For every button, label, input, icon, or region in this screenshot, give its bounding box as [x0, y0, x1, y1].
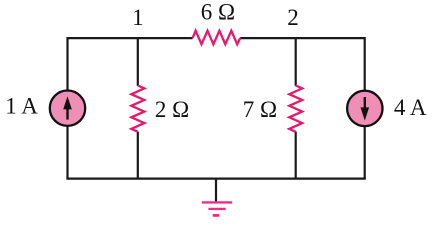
- svg-text:1 A: 1 A: [5, 93, 38, 118]
- wire: node 1 lower stub: [137, 132, 139, 179]
- wire: node 2 lower stub: [295, 132, 297, 179]
- current source I2 4A circle: [347, 91, 382, 126]
- ground bar 1: [202, 201, 232, 203]
- svg-text:7 Ω: 7 Ω: [243, 97, 277, 122]
- svg-text:2: 2: [287, 5, 299, 30]
- wire: bottom horizontal: [66, 178, 365, 180]
- svg-text:6 Ω: 6 Ω: [201, 0, 235, 24]
- wire: node 1 upper stub: [137, 38, 139, 86]
- wire: node 2 upper stub: [295, 38, 297, 86]
- wire: ground stem: [215, 179, 217, 203]
- svg-text:4 A: 4 A: [394, 95, 427, 120]
- svg-text:2 Ω: 2 Ω: [155, 97, 189, 122]
- svg-text:1: 1: [132, 5, 144, 30]
- current source I1 1A circle: [50, 91, 85, 126]
- current source I2 arrow (down): [364, 97, 366, 110]
- resistor 7 ohm zigzag: [289, 86, 302, 132]
- current source I1 arrow (up): [66, 108, 68, 120]
- ground bar 2: [208, 208, 225, 210]
- ground bar 3: [213, 214, 220, 217]
- resistor 6 ohm zigzag: [193, 31, 241, 45]
- resistor 2 ohm zigzag: [131, 86, 144, 132]
- wire: top-right horizontal and right vertical: [240, 38, 365, 179]
- wire: left vertical and top-left horizontal: [68, 38, 193, 179]
